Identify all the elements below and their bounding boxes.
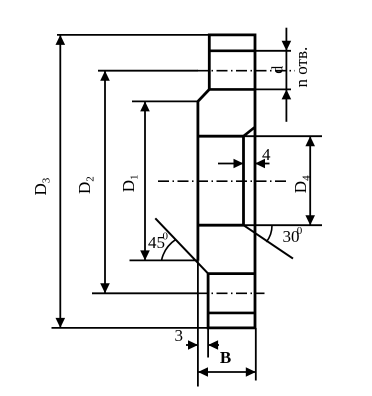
- 45 degree chamfer line lower-left with annotation extension: [155, 218, 208, 273]
- D2 arrowheads: [100, 71, 110, 81]
- D1 top extension line: [132, 100, 198, 102]
- D4 top extension line: [244, 135, 323, 137]
- svg-text:0: 0: [297, 225, 303, 237]
- main axis centerline dash-dot: [158, 180, 289, 182]
- dimension 3 left line: [186, 344, 198, 346]
- central bore (D4) edges: [198, 136, 244, 225]
- 30 degree arc: [266, 225, 272, 242]
- dimension d line: [285, 28, 287, 122]
- D2 top extension line (hole centerline): [98, 70, 198, 72]
- upper bolt hole far edge: [209, 88, 255, 91]
- dimension 4 left arrowhead: [234, 159, 244, 169]
- svg-text:d: d: [269, 66, 286, 74]
- B arrowheads: [198, 367, 208, 377]
- right face extension line down: [255, 328, 257, 381]
- 30 degree chamfer line lower-right with annotation extension: [244, 225, 294, 258]
- left face extension line down: [197, 261, 199, 387]
- D4 bottom extension line: [244, 224, 323, 226]
- hub left edge extension line down: [207, 328, 209, 358]
- d lower extension line: [255, 88, 291, 90]
- D3 bottom extension line: [52, 327, 209, 329]
- dimension D3 line: [59, 35, 61, 328]
- D1 bottom extension line: [130, 259, 198, 261]
- flange body outline: rim top edge, right face, bottom edge, lower hub: [208, 35, 255, 328]
- dimension 3 right line: [208, 344, 219, 346]
- dimension 4 left line: [218, 163, 244, 165]
- upper bolt hole centerline dash-dot: [197, 70, 295, 72]
- dimension 4 right arrowhead: [255, 159, 265, 169]
- svg-text:0: 0: [163, 230, 169, 242]
- upper bolt hole near edge: [209, 49, 255, 52]
- d arrowheads: [282, 41, 292, 51]
- dimension 3 right arrowhead: [208, 340, 218, 350]
- dimension D2 line: [104, 71, 106, 294]
- dimension B line: [198, 371, 256, 373]
- D1 arrowheads: [140, 101, 150, 111]
- D4 arrowheads: [305, 136, 315, 146]
- lower bolt hole near edge: [208, 312, 255, 315]
- svg-text:В: В: [220, 348, 231, 367]
- dimension 4 right line: [255, 163, 270, 165]
- upper-left chamfer and left disc face: [198, 89, 209, 260]
- svg-text:3: 3: [175, 326, 184, 345]
- dimension D4 line: [309, 136, 311, 225]
- svg-text:n отв.: n отв.: [292, 47, 311, 88]
- D3 arrowheads: [56, 35, 66, 45]
- svg-text:4: 4: [262, 145, 271, 164]
- 45 degree arc: [162, 239, 177, 260]
- lower bolt hole centerline dash-dot: [197, 292, 265, 294]
- dimension 3 left arrowhead: [188, 340, 198, 350]
- d upper extension line: [255, 50, 291, 52]
- D3 top extension line: [57, 34, 209, 36]
- D2 bottom extension line (hole centerline): [92, 292, 198, 294]
- upper bore chamfer: [244, 127, 256, 136]
- dimension D1 line: [144, 101, 146, 260]
